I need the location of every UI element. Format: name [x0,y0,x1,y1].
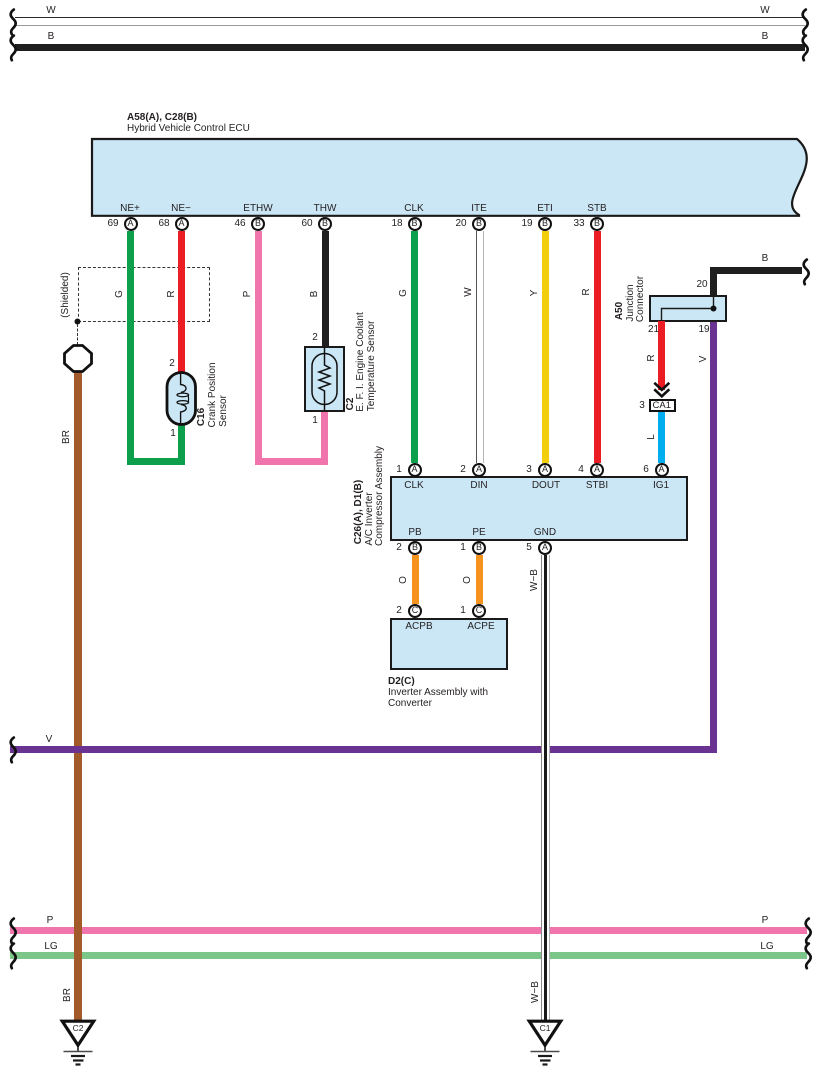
wire ETI Y yellow [542,231,549,463]
wire L cyan [658,412,665,463]
label B junction wire [762,254,769,264]
wire R red junction to CA1 [658,321,665,390]
wire break right P [795,909,817,979]
pin 1 A CLK [408,463,422,477]
node shield junction dot [70,314,86,330]
label CLK inside [404,481,423,491]
wire NE- R red [178,231,185,373]
wire shield dashed drop [77,324,78,345]
pin 1 B PE [472,541,486,555]
label (Shielded) [61,272,71,318]
label BR top [62,430,72,444]
label Hybrid Vehicle Control ECU [127,123,250,134]
A/C inverter compressor assembly box [390,476,688,542]
wire W bus top [15,17,805,26]
label 2 C2 [312,333,318,343]
wire break left V [0,728,30,798]
label W-B top [530,569,540,591]
label GND inside [534,528,556,538]
pin 5 A GND [538,541,552,555]
label V bus [46,735,53,745]
wire green stub to C16 pin1 [178,424,185,458]
label LG bus right [760,942,773,952]
wire break right B [792,26,817,96]
label PB inside [408,528,421,538]
label C16 [197,408,207,426]
label E. F. I. Engine Coolant [356,312,366,412]
wire break right LG [795,934,817,1004]
label C1 ground [540,1023,551,1033]
label 2 C16 [169,359,175,369]
label W left [46,6,55,16]
wire ITE W white [476,231,485,463]
pin 2 C ACPB [408,604,422,618]
label P [243,291,253,298]
label B right [762,32,769,42]
pin 19 B ETI [538,217,552,231]
label ACPB inside [405,622,432,632]
wire B black corner drop [710,267,717,296]
label B left [48,32,55,42]
label DOUT inside [532,481,560,491]
wire break left P [0,909,30,979]
pin name STB [587,204,606,214]
pin 3 A DOUT [538,463,552,477]
wire V purple vertical [710,322,717,753]
label R junction [647,354,657,361]
label G [115,290,125,298]
connector CA1 box [649,399,677,413]
junction connector A50 box [649,295,727,322]
label DIN inside [470,481,487,491]
wire pink horizontal [255,458,329,465]
wire W-B black stripe [544,555,546,1021]
pin 18 B CLK [408,217,422,231]
label C2 ground [73,1023,84,1033]
pin name ITE [471,204,487,214]
wire break right B junction [793,250,817,320]
pin 4 A STBI [590,463,604,477]
inverter assembly D2 box [390,618,509,670]
label P bus right [762,916,769,926]
wire B bus top [15,44,805,51]
pin 20 B ITE [472,217,486,231]
label 1 C16 [170,429,176,439]
pin 69 A NE+ [124,217,138,231]
wire CLK G green [411,231,418,463]
label Converter [388,698,432,709]
pin 6 A IG1 [655,463,669,477]
label Connector [636,276,646,322]
label Crank Position [208,362,218,427]
label STBI inside [586,481,608,491]
pin 68 A NE- [175,217,189,231]
wire W-B ground [541,555,550,1021]
label 3 [639,401,645,411]
wire LG green bus [10,952,807,959]
wire B black to junction [710,267,802,274]
label C26(A), D1(B) [354,480,364,544]
sensor C16 body [164,369,200,429]
pin 2 A DIN [472,463,486,477]
label PE inside [472,528,485,538]
label Inverter Assembly with [388,687,488,698]
label ACPE inside [467,622,494,632]
connector chevron arrows [646,376,678,400]
ECU A58 box [0,0,817,230]
label W right [760,6,769,16]
wire pink stub to C2 pin1 [321,411,328,458]
label R STB [582,288,592,295]
wire break left W [0,0,30,70]
label P bus left [47,916,54,926]
label LG bus left [44,942,57,952]
label Y [530,290,540,297]
wire STB R red [594,231,601,463]
wire NE+ G green [127,231,134,465]
label 21 [648,325,659,335]
pin 46 B ETHW [251,217,265,231]
label R [167,290,177,297]
label 19 [698,325,709,335]
label O PB [399,576,409,584]
label B THW [310,291,320,298]
label Sensor [219,395,229,427]
ground C1 [517,1014,577,1074]
pin name CLK [404,204,423,214]
label W-B bottom [531,981,541,1003]
wire ETHW P pink [255,231,262,465]
wire green horizontal [127,458,185,465]
label CA1 [653,401,671,411]
pin name ETHW [243,204,272,214]
label Compressor Assembly [375,446,385,546]
wire BR brown [74,371,82,1021]
shield dashed box [78,267,211,322]
label A/C Inverter [365,492,375,545]
label L [647,434,657,440]
junction inner wire [649,295,729,325]
pin 2 B PB [408,541,422,555]
label V junction [699,356,709,363]
label W ITE [464,287,474,296]
label C2 [346,398,356,411]
wire break right W [792,0,817,70]
wire break left B [0,26,30,96]
shield octagon ring [62,344,94,374]
label 20 [696,280,707,290]
ground C2 [50,1014,110,1074]
pin name THW [314,204,337,214]
sensor C2 box [304,346,345,412]
label IG1 inside [653,481,669,491]
pin 1 C ACPE [472,604,486,618]
wire O orange PE [476,555,483,604]
sensor C2 thermistor [304,346,345,412]
wire P pink bus [10,927,807,934]
wire V purple bus [10,746,717,753]
label O PE [463,576,473,584]
pin name NE+ [120,204,140,214]
label D2(C) [388,676,415,687]
wire THW B black [322,231,329,347]
wire break left LG [0,934,30,1004]
pin 60 B THW [318,217,332,231]
label A50 [615,302,625,320]
label Temperature Sensor [367,321,377,412]
pin name NE- [171,204,191,214]
label A58(A), C28(B) [127,112,197,123]
pin name ETI [537,204,553,214]
label Junction [626,284,636,321]
label BR bottom [63,988,73,1002]
wire O orange PB [412,555,419,604]
label G CLK [399,289,409,297]
label 1 C2 [312,416,318,426]
pin 33 B STB [590,217,604,231]
